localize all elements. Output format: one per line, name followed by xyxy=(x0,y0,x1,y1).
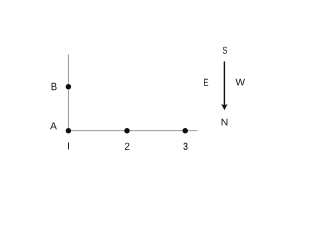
label W xyxy=(236,79,246,86)
node 2 xyxy=(124,128,129,133)
label A xyxy=(50,122,57,129)
node B xyxy=(66,84,71,89)
label 1 xyxy=(68,142,69,149)
label N xyxy=(222,119,228,126)
label 2 xyxy=(125,143,130,150)
label B xyxy=(52,83,57,90)
label S xyxy=(223,47,227,54)
compass arrowhead xyxy=(221,104,227,110)
node A xyxy=(66,128,71,133)
label E xyxy=(204,79,208,86)
wire compass arrow shaft xyxy=(223,61,225,106)
label 3 xyxy=(184,143,188,150)
wire horizontal axis xyxy=(68,130,197,132)
node 3 xyxy=(183,128,188,133)
wire vertical axis xyxy=(67,54,69,130)
